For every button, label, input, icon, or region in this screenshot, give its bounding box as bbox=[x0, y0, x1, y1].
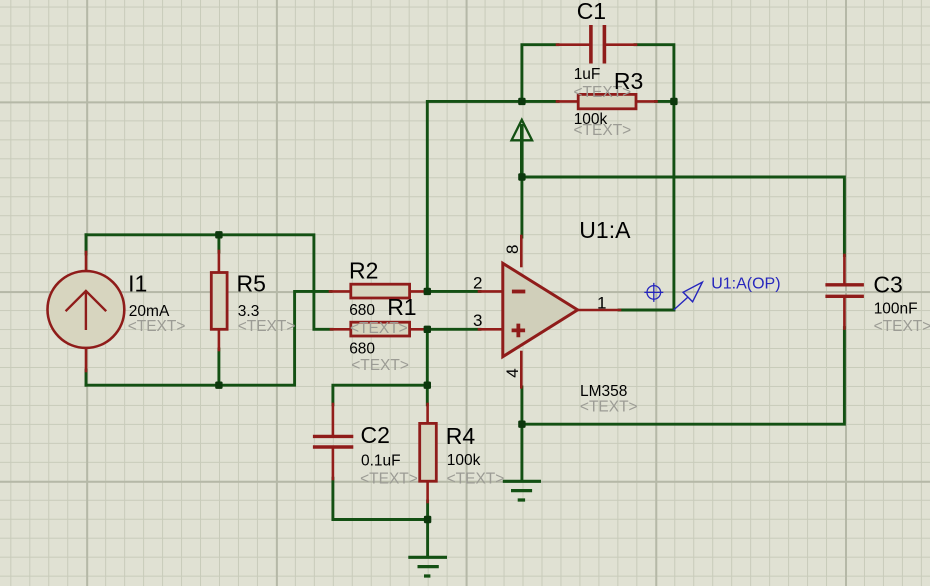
svg-text:<TEXT>: <TEXT> bbox=[574, 122, 632, 139]
junction node R5 top bbox=[215, 231, 222, 238]
pin R1 left bbox=[331, 328, 351, 331]
wire I1 bottom stub bbox=[85, 370, 88, 385]
resistor R5 body bbox=[211, 273, 227, 330]
wire R1 node down to R4 top node bbox=[426, 329, 429, 405]
wire I1 top stub bbox=[85, 235, 88, 254]
resistor R1 body bbox=[351, 322, 410, 336]
wire power node to C3 top bbox=[522, 177, 845, 256]
pin R4 top bbox=[426, 404, 429, 424]
svg-text:2: 2 bbox=[473, 273, 482, 292]
wire C1 left branch bbox=[522, 45, 558, 102]
junction node R1/C2/R4 bbox=[424, 382, 431, 389]
resistor R3 body bbox=[578, 94, 636, 108]
pin R2 left bbox=[330, 290, 351, 293]
junction node pin2/R2 bbox=[424, 288, 431, 295]
wire R1 right to op-amp pin3 bbox=[426, 328, 480, 331]
pin R5 top bbox=[218, 251, 221, 273]
junction node R3 left net bbox=[518, 98, 525, 105]
wire I1 bottom to R2 via corner bbox=[86, 291, 331, 385]
svg-text:U1:A(OP): U1:A(OP) bbox=[711, 276, 780, 293]
pin R3 left bbox=[557, 100, 578, 103]
pin R5 bottom bbox=[218, 329, 221, 350]
svg-text:U1:A: U1:A bbox=[579, 217, 631, 243]
svg-text:100nF: 100nF bbox=[874, 301, 918, 318]
wire op-amp output bbox=[619, 309, 674, 312]
svg-text:R4: R4 bbox=[446, 423, 476, 449]
svg-text:0.1uF: 0.1uF bbox=[361, 452, 401, 469]
wire pin4 down to ground bbox=[520, 387, 523, 481]
capacitor C2 plates bbox=[313, 436, 353, 447]
pin C3 bottom bbox=[843, 298, 846, 329]
svg-text:R2: R2 bbox=[349, 257, 378, 283]
pin R4 bottom bbox=[426, 482, 429, 503]
wire C1 right branch down to output bbox=[635, 45, 674, 310]
pin op-amp 4 bbox=[520, 352, 523, 387]
pin R1 right bbox=[410, 328, 427, 331]
svg-text:<TEXT>: <TEXT> bbox=[360, 471, 418, 488]
resistor R4 body bbox=[420, 423, 437, 481]
svg-text:1uF: 1uF bbox=[574, 66, 601, 83]
pin C1 right bbox=[605, 43, 637, 46]
op-amp minus input mark bbox=[512, 290, 525, 294]
pin op-amp 1 output bbox=[578, 309, 621, 312]
junction node R3 right net bbox=[670, 98, 677, 105]
wire R2 node up to R3/C1 net bbox=[427, 101, 558, 291]
pin C2 bottom bbox=[332, 449, 335, 480]
wire I1 top to R1 via corner bbox=[86, 235, 332, 329]
probe target marker bbox=[647, 286, 661, 300]
svg-text:1: 1 bbox=[597, 293, 606, 312]
wire R3 right to feedback node bbox=[656, 100, 674, 103]
wire R5 top stub bbox=[217, 235, 220, 252]
svg-text:4: 4 bbox=[503, 368, 522, 377]
junction node C2/R4 bottom bbox=[424, 516, 431, 523]
svg-text:8: 8 bbox=[503, 245, 522, 254]
svg-text:680: 680 bbox=[349, 340, 375, 357]
wire R4 bottom to ground bbox=[426, 501, 429, 557]
svg-text:C1: C1 bbox=[577, 0, 606, 24]
ground symbol below R4 bbox=[408, 557, 447, 576]
svg-text:<TEXT>: <TEXT> bbox=[350, 320, 408, 337]
pin I1 bottom bbox=[85, 348, 88, 372]
pin R3 right bbox=[636, 100, 657, 103]
svg-text:I1: I1 bbox=[128, 271, 147, 297]
svg-text:<TEXT>: <TEXT> bbox=[128, 318, 186, 335]
svg-text:R5: R5 bbox=[237, 271, 266, 297]
wire R5 bottom stub bbox=[217, 349, 220, 385]
svg-text:<TEXT>: <TEXT> bbox=[447, 471, 505, 488]
pin R2 right bbox=[410, 290, 428, 293]
pin C3 top bbox=[843, 255, 846, 284]
svg-text:R1: R1 bbox=[387, 294, 416, 320]
ground symbol below pin4 bbox=[503, 481, 541, 500]
resistor R2 body bbox=[351, 284, 410, 298]
wire R2 right to op-amp pin2 bbox=[426, 290, 480, 293]
junction node pin4/C3 ground net bbox=[518, 421, 525, 428]
svg-text:3: 3 bbox=[473, 311, 482, 330]
svg-text:<TEXT>: <TEXT> bbox=[580, 399, 638, 416]
op-amp U1:A body bbox=[503, 263, 578, 356]
current source I1 arrow bbox=[66, 291, 107, 330]
junction node R5 bottom bbox=[215, 382, 222, 389]
junction node power/pin8 bbox=[518, 173, 525, 180]
svg-text:C2: C2 bbox=[361, 422, 390, 448]
current source I1 body bbox=[48, 271, 125, 348]
wire C2 bottom to R4 bottom node bbox=[333, 478, 428, 519]
svg-text:C3: C3 bbox=[873, 271, 902, 297]
power terminal arrow bbox=[512, 120, 533, 141]
svg-text:<TEXT>: <TEXT> bbox=[874, 318, 930, 335]
pin op-amp 2 bbox=[479, 290, 502, 293]
op-amp plus input mark bbox=[512, 324, 525, 338]
pin op-amp 8 bbox=[520, 236, 523, 266]
pin C2 top bbox=[332, 404, 335, 435]
svg-text:100k: 100k bbox=[447, 452, 481, 469]
wire C2 top branch bbox=[333, 385, 427, 405]
pin C1 left bbox=[557, 43, 590, 46]
wire C3 bottom to pin4/ground net bbox=[522, 328, 845, 425]
junction node pin3/R1 bbox=[424, 326, 431, 333]
capacitor C1 plates bbox=[591, 25, 605, 64]
svg-text:R3: R3 bbox=[614, 68, 643, 94]
svg-text:680: 680 bbox=[349, 302, 375, 319]
svg-text:<TEXT>: <TEXT> bbox=[351, 357, 409, 374]
wire power node down to pin8 bbox=[520, 140, 523, 237]
capacitor C3 plates bbox=[825, 285, 864, 297]
svg-text:<TEXT>: <TEXT> bbox=[238, 318, 296, 335]
probe cursor arrow bbox=[674, 282, 703, 310]
pin op-amp 3 bbox=[479, 328, 502, 331]
pin I1 top bbox=[85, 252, 88, 272]
